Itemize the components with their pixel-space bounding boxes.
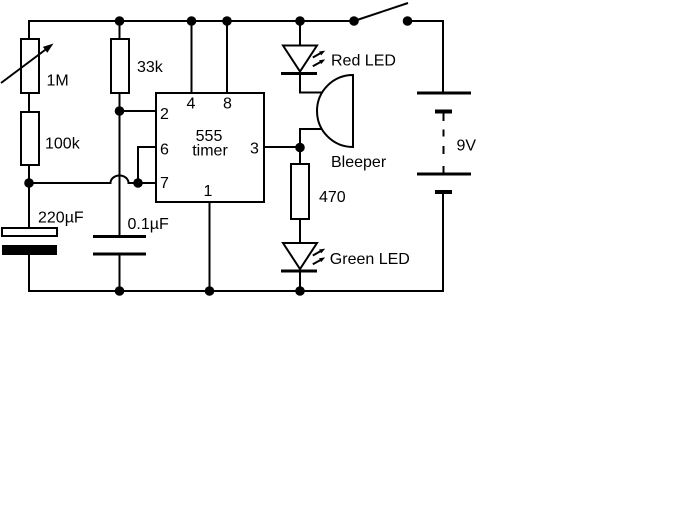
node switch right terminal xyxy=(403,16,413,26)
node junction top rail / red LED xyxy=(295,16,305,26)
svg-text:Bleeper: Bleeper xyxy=(331,154,387,171)
battery B1 9V xyxy=(417,93,471,192)
LED D1 red xyxy=(281,46,325,74)
LED D2 green xyxy=(281,243,325,271)
wire 0.1uF to bottom rail xyxy=(119,254,121,291)
node junction top rail / pin8 xyxy=(222,16,232,26)
svg-text:220µF: 220µF xyxy=(38,210,84,227)
svg-text:3: 3 xyxy=(250,141,259,158)
resistor R2 33k xyxy=(111,39,129,93)
wire pin3 xyxy=(264,146,300,148)
svg-text:Red LED: Red LED xyxy=(331,53,396,70)
svg-text:8: 8 xyxy=(223,96,232,113)
wire left column top xyxy=(28,20,30,39)
svg-text:9V: 9V xyxy=(457,138,477,155)
wire bottom rail xyxy=(28,290,444,292)
wire 470 to green LED xyxy=(299,219,301,243)
wire green LED to bottom rail xyxy=(299,271,301,291)
wire 33k bottom to 0.1uF xyxy=(119,93,121,236)
node junction 33k/pin2 xyxy=(115,106,125,116)
wire pin6 branch xyxy=(138,147,157,183)
op-amp U1 555 timer IC box xyxy=(156,93,264,202)
node junction bottom rail / 0.1uF xyxy=(115,286,125,296)
wire node to 470 xyxy=(299,147,301,164)
node junction bottom rail / green LED xyxy=(295,286,305,296)
svg-text:1M: 1M xyxy=(47,73,69,90)
capacitor C1 220uF xyxy=(2,228,57,255)
wire 100k to 220uF xyxy=(28,165,30,228)
wire red LED branch from top rail xyxy=(299,21,301,46)
resistor R3 470 xyxy=(291,164,309,219)
wire battery bottom xyxy=(442,194,444,292)
node switch left terminal xyxy=(349,16,359,26)
wire pin7 with hop over vertical wire xyxy=(29,176,157,183)
svg-text:1: 1 xyxy=(204,183,213,200)
resistor VR1 1M variable xyxy=(1,39,54,93)
wire pin1 to bottom rail xyxy=(209,202,211,291)
svg-text:100k: 100k xyxy=(45,136,81,153)
svg-text:4: 4 xyxy=(187,96,196,113)
svg-text:6: 6 xyxy=(160,142,169,159)
svg-text:timer: timer xyxy=(192,143,228,160)
wire 1M to 100k xyxy=(28,93,30,112)
node junction top rail / pin4 xyxy=(187,16,197,26)
wire red LED to bleeper top xyxy=(300,74,322,93)
svg-text:33k: 33k xyxy=(137,59,164,76)
wire top rail right section xyxy=(407,20,444,22)
capacitor C2 0.1uF xyxy=(93,237,146,255)
speaker LS1 bleeper xyxy=(317,75,353,147)
node junction bottom rail / pin1 xyxy=(205,286,215,296)
node junction top rail / 33k xyxy=(115,16,125,26)
wire battery top xyxy=(442,20,444,93)
wire pin8 to top rail xyxy=(226,21,228,93)
svg-text:0.1µF: 0.1µF xyxy=(128,216,169,233)
node junction pin3 / bleeper / 470 xyxy=(295,143,305,153)
wire pin4 to top rail xyxy=(191,21,193,93)
svg-text:470: 470 xyxy=(319,189,346,206)
svg-text:7: 7 xyxy=(160,175,169,192)
svg-text:2: 2 xyxy=(160,106,169,123)
wire pin2 xyxy=(120,110,158,112)
node junction 100k/pin7 xyxy=(24,178,34,188)
switch S1 open blade xyxy=(354,3,408,21)
svg-text:Green LED: Green LED xyxy=(330,251,410,268)
wire top rail left section xyxy=(29,20,354,22)
resistor R1 100k xyxy=(21,112,39,165)
wire 33k top xyxy=(119,20,121,39)
wire 220uF to bottom rail xyxy=(28,255,30,292)
node junction pin6 branch / pin7 wire xyxy=(133,178,143,188)
wire bleeper bottom to pin3 node xyxy=(300,129,322,147)
